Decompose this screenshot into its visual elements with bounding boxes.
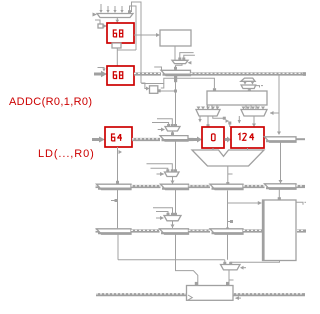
arrow pin into box5 (225, 137, 232, 143)
wire M3 output to box4 (198, 116, 209, 128)
mux M1 select arrow (93, 13, 98, 17)
wire MC output (171, 221, 175, 228)
clock box below box1 (112, 43, 121, 48)
bus B3 T1 to S3 (131, 184, 161, 188)
probe box1 value 68 (107, 23, 134, 43)
mux MC (156, 216, 181, 221)
bus B4 T2 to S4 (131, 229, 160, 233)
register R2 instruction (207, 91, 267, 105)
bus B1 right of S1 (191, 72, 307, 76)
bus B3 S3c to S3b (243, 184, 265, 188)
probe box2 value 68 (107, 66, 134, 85)
wires R2 to M3 (208, 105, 218, 110)
wire IR bottom route (176, 233, 199, 286)
wire BB right arrow (235, 296, 241, 300)
bus B4 S4 to S4c (189, 229, 211, 233)
bus B1 box2 to slab S1 (134, 72, 161, 76)
wire MA output (172, 131, 174, 136)
slab S3b (265, 142, 297, 189)
svg-text:ADDC(R0,1,R0): ADDC(R0,1,R0) (9, 96, 92, 108)
slab S3c (210, 184, 243, 189)
wire MC select lines (153, 208, 174, 216)
slab S1 (161, 70, 191, 75)
wire IR S2 to MB (174, 141, 177, 172)
arrow pin into box2 (94, 68, 107, 78)
probe box3 value 64 (105, 127, 132, 147)
bus B4 S4c to MEM (243, 229, 262, 233)
register R1 (160, 30, 191, 46)
wires R2 to M4 (246, 105, 256, 110)
mux M5 (221, 262, 247, 270)
wire R1 output (174, 46, 176, 60)
mux MB (157, 172, 180, 177)
wire PC T1 to T2 (111, 189, 118, 228)
wire M2 output hook (154, 64, 182, 70)
bus B3 left stub (96, 184, 102, 188)
wire PC bottom route (118, 234, 225, 262)
slab S3 (161, 184, 189, 189)
small box K1 (141, 83, 176, 93)
slab S4 (160, 229, 189, 234)
wire S2 top pin (171, 132, 174, 135)
mux M6b (241, 85, 263, 93)
wire MEM top pin (278, 189, 281, 201)
slab S5 (265, 132, 297, 143)
wire MEM bottom to M5 (231, 261, 280, 264)
wire IR S3 to MC (174, 190, 177, 216)
bus B5 bottom (96, 292, 305, 296)
wire MEM right pin (296, 202, 306, 205)
demux M6a (241, 78, 255, 85)
wire K1 loop to R2 top (164, 78, 216, 91)
wire box5 to ALU (247, 148, 249, 150)
wire M1 output (116, 18, 120, 24)
wire tick below box3 (118, 147, 123, 184)
bus B2 S2 to box4 (188, 137, 202, 143)
svg-text:LD(...,R0): LD(...,R0) (38, 148, 95, 160)
mux M4 (241, 107, 267, 117)
bus B2 box3 to slab S2 (132, 137, 160, 141)
wire thick IR drop below S1 (174, 75, 177, 127)
wire top loop A (130, 6, 137, 50)
bus B3 S3 to S3c (189, 184, 211, 188)
slab S4c (210, 229, 243, 234)
arrow pin into box3 (92, 137, 105, 143)
mux M2 (172, 53, 195, 65)
wire T1 top pin (116, 181, 119, 184)
wire box4 to ALU (212, 148, 214, 150)
probe box5 value 124 (231, 127, 264, 148)
wire S5 right stub (296, 138, 305, 140)
wire M4 output to box5 (252, 116, 256, 127)
memory MEM (262, 200, 296, 261)
probe box4 value 0 (202, 127, 224, 148)
wire ALU output (226, 166, 232, 185)
mux M1 (PC select mux, top) (97, 4, 133, 18)
slab T1 (97, 184, 132, 189)
wire enable hook left of box1 (95, 20, 107, 28)
wire right column from bus B1 (278, 75, 280, 134)
wire cross from loop A (117, 49, 136, 51)
mux M3 (196, 107, 220, 117)
wire MB select lines (147, 164, 174, 173)
wire M4 select from right (270, 111, 279, 115)
wire MEM column below S4c (227, 234, 229, 260)
wire MB output (171, 177, 175, 185)
mux MA (152, 119, 180, 132)
register bottom BB (187, 286, 234, 301)
wire MEM left input (228, 201, 263, 205)
bus B3 right end (296, 184, 305, 188)
wire PC vertical box1-box2 (116, 48, 118, 66)
slab T2 (97, 229, 132, 234)
bus B4 right stub (297, 229, 306, 233)
wire top loop B (132, 2, 142, 83)
ALU (192, 150, 264, 166)
wire box1 to register R1 (134, 33, 160, 37)
wire M5 output (226, 270, 234, 286)
slab S2 (160, 136, 188, 142)
wire clock cluster box4 box5 (213, 116, 241, 128)
bus B4 left stub (96, 229, 102, 233)
wire MEM column below S3c (226, 191, 233, 231)
